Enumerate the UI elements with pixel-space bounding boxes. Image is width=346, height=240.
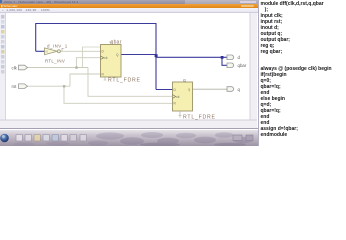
svg-text:rst: rst	[12, 84, 18, 89]
wire: branch to port d	[222, 56, 227, 58]
wire: qbar FDRE Q output	[121, 54, 156, 56]
wire: inverter output to qbar-FDRE D pin	[61, 50, 101, 52]
taskbar	[0, 130, 258, 146]
pin stub above qbar-FDRE	[109, 42, 112, 45]
wire: qbar net to output ports	[156, 56, 222, 58]
svg-text:qbar: qbar	[111, 39, 122, 45]
svg-text:RTL_FDRE: RTL_FDRE	[108, 78, 141, 84]
svg-text:clk: clk	[12, 65, 18, 70]
wire: clk branch down to q-FDRE C pin	[88, 68, 173, 97]
right scrollbar	[250, 13, 257, 120]
wire: clk branch to qbar-FDRE CE pin	[83, 47, 101, 68]
flip-flop qbar_reg RTL_FDRE	[101, 45, 122, 78]
port rst	[19, 84, 28, 89]
svg-text:RTL_INV: RTL_INV	[45, 59, 65, 64]
svg-text:q: q	[188, 88, 190, 92]
node junction at Q output	[155, 54, 158, 57]
wire: feedback net qbar top horizontal	[36, 23, 156, 25]
left tool strip	[0, 13, 6, 120]
port d (output)	[227, 55, 234, 60]
wire: q-FDRE Q output to port q	[193, 88, 228, 90]
wire: rst branch up to qbar-FDRE R pin	[70, 74, 101, 86]
start orb	[0, 134, 9, 143]
svg-text:q: q	[183, 79, 186, 84]
quick launch icons	[16, 135, 86, 141]
bottom scrollbar	[0, 120, 257, 128]
svg-text:RTL_FDRE: RTL_FDRE	[183, 114, 216, 120]
svg-text:d_INV_1: d_INV_1	[47, 43, 68, 48]
flip-flop q_reg RTL_FDRE	[173, 82, 193, 111]
port q (output)	[227, 87, 234, 92]
wire: feedback net right vertical	[155, 23, 157, 90]
port qbar (output)	[227, 63, 234, 68]
svg-text:ck: ck	[104, 56, 108, 60]
inverter d_INV_1	[45, 48, 58, 55]
wire: clk branch up to qbar-FDRE C pin	[76, 58, 100, 68]
pin stub below q-FDRE	[179, 111, 182, 117]
node junction clk	[75, 66, 77, 68]
node junction at port branch	[221, 56, 224, 59]
wire: clk net horizontal	[28, 67, 89, 69]
wire: feedback into inverter input	[36, 50, 45, 52]
schematic canvas + left toolbar + scrollbars as SVG	[0, 13, 258, 130]
svg-text:qbar: qbar	[238, 63, 247, 68]
wire: qbar net into q-FDRE D pin	[156, 89, 173, 91]
orange banner	[0, 4, 258, 8]
pin stub below qbar-FDRE	[104, 77, 107, 80]
wire: branch down to port qbar	[222, 57, 227, 65]
menu/tool bar	[0, 8, 258, 13]
wire: feedback net left vertical	[35, 23, 37, 51]
marble veins	[14, 132, 253, 147]
tray marks	[233, 135, 242, 140]
node junction rst	[63, 85, 65, 87]
wire: rst branch down to q-FDRE R pin	[64, 86, 173, 103]
wire: rst net horizontal	[28, 85, 71, 87]
svg-text:ck: ck	[176, 95, 180, 99]
port clk	[19, 65, 28, 70]
title bar	[0, 0, 258, 4]
code window (right)	[258, 0, 346, 146]
